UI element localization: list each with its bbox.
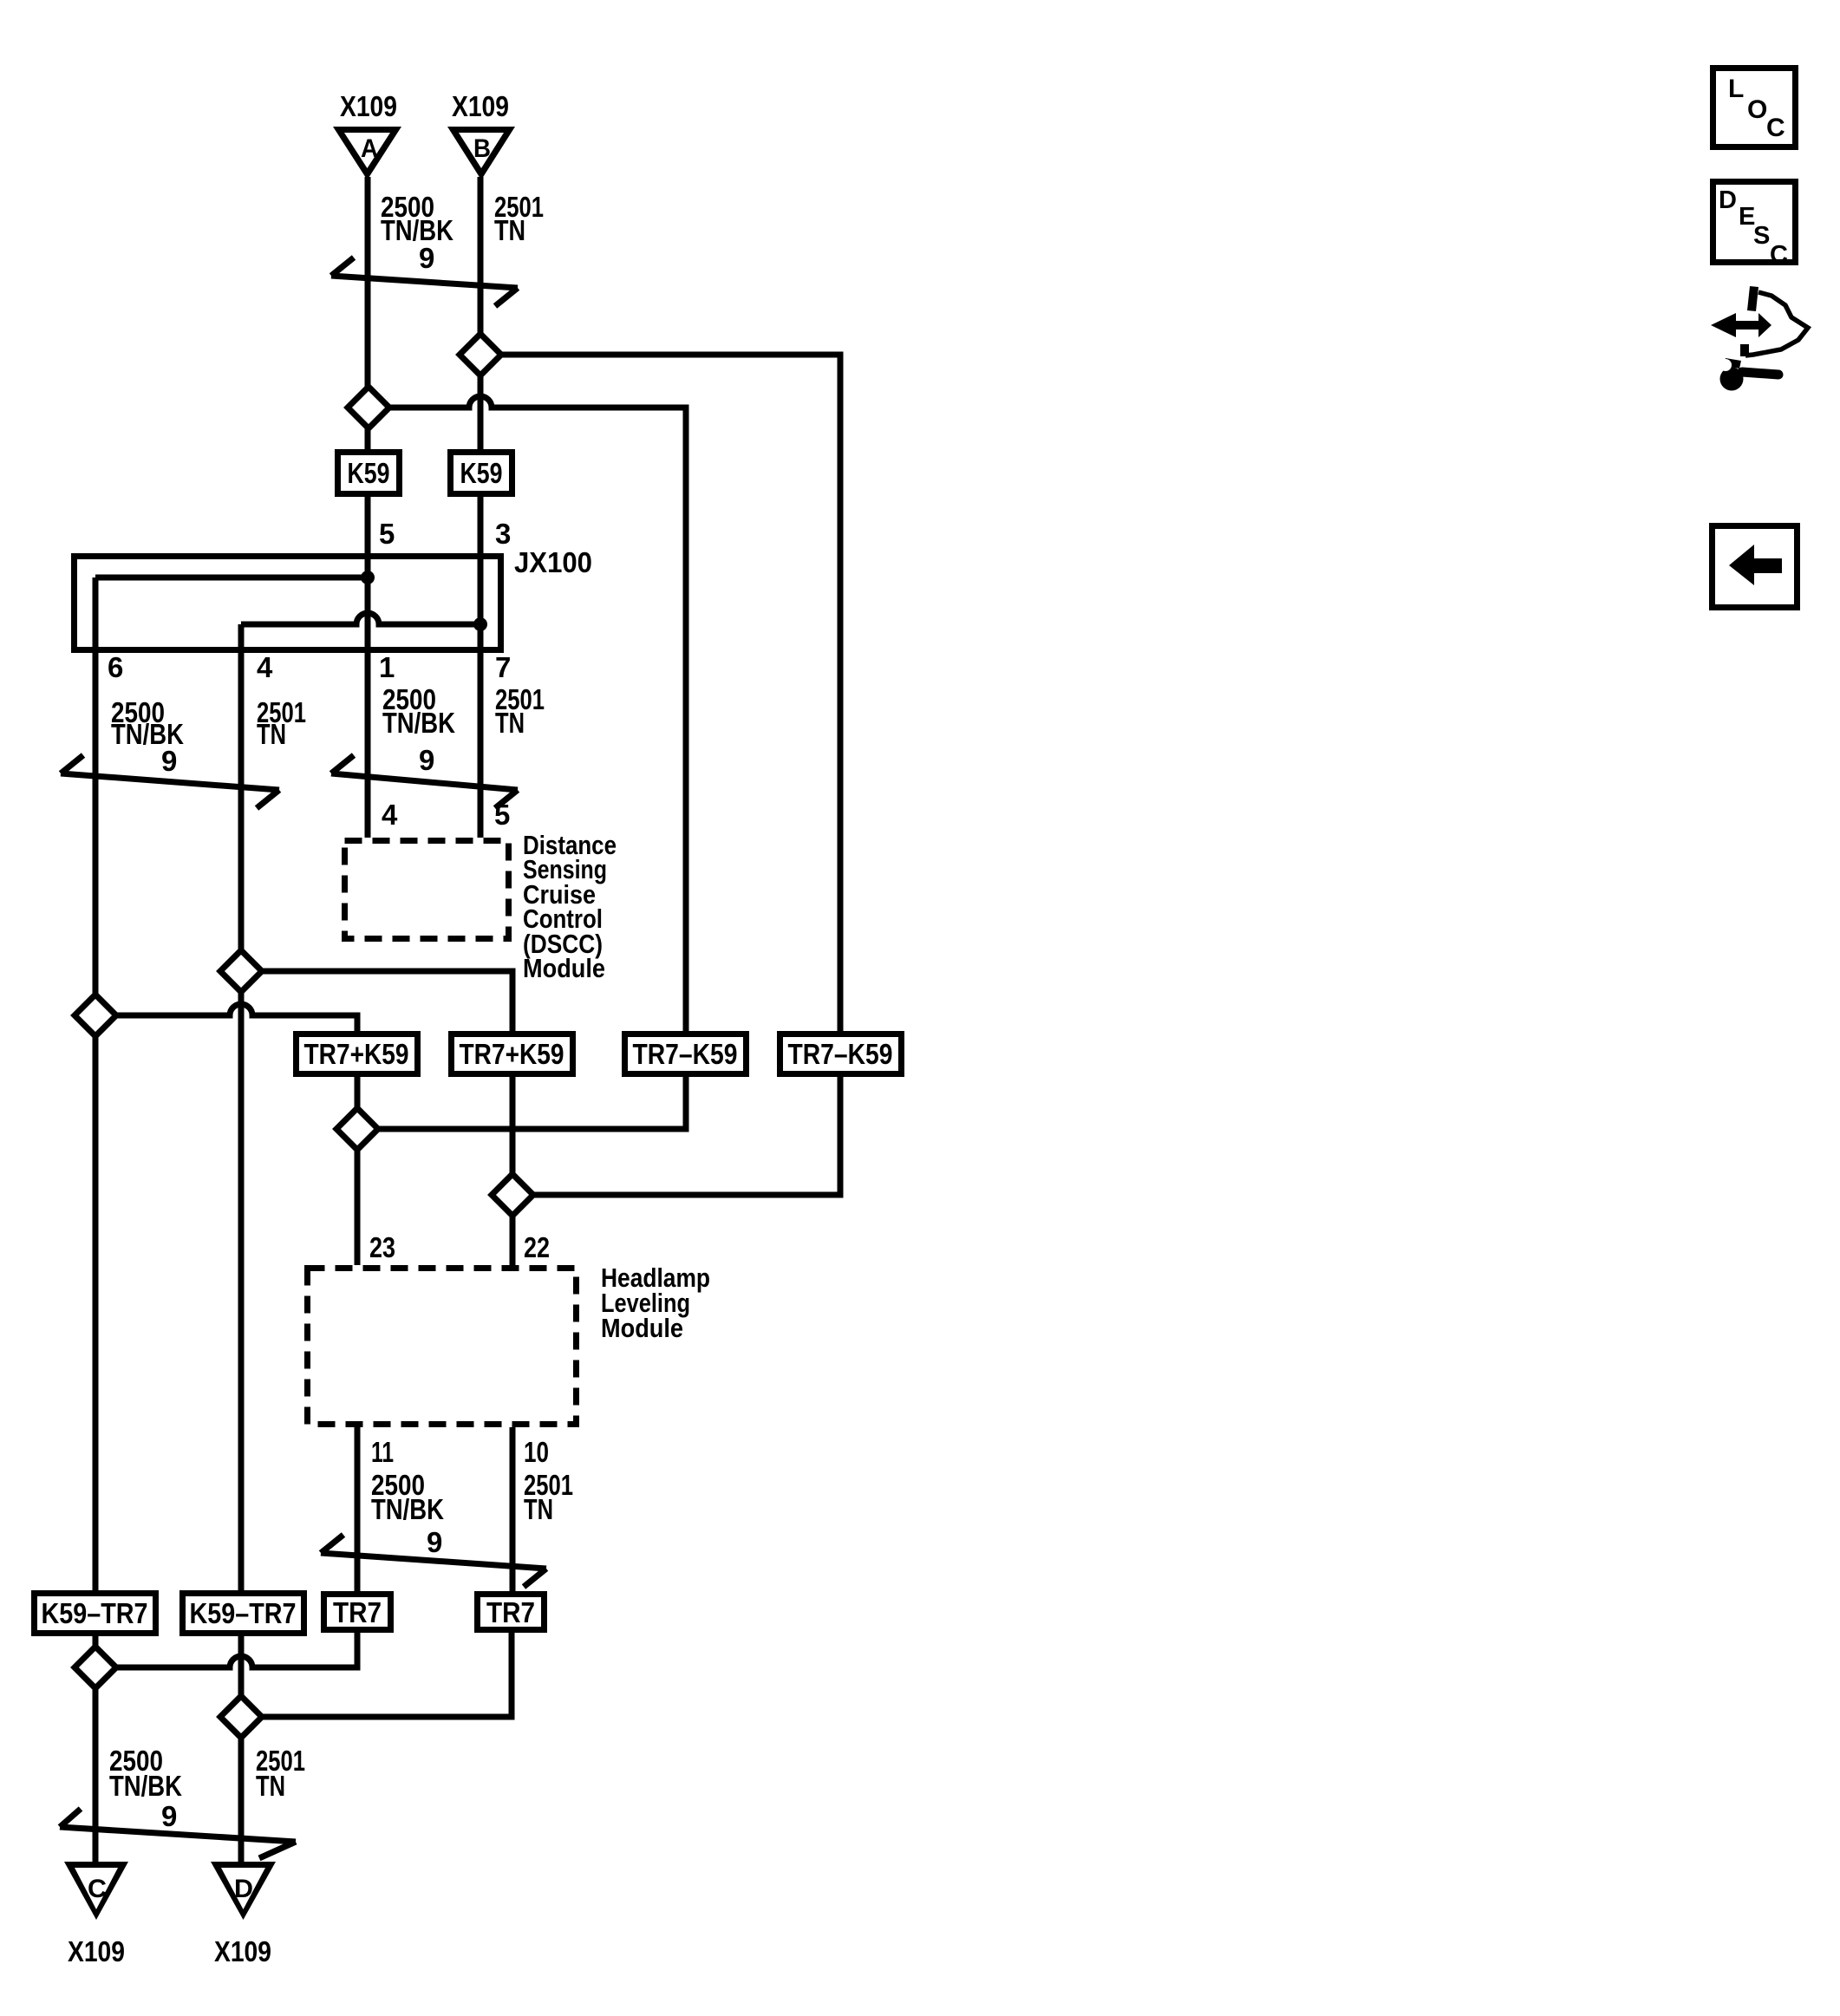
svg-text:TR7+K59: TR7+K59 — [460, 1038, 564, 1070]
wire 2500 TN/BK circuit (A) vertical x=424 — [365, 177, 371, 838]
svg-text:D: D — [234, 1875, 253, 1903]
svg-text:TR7+K59: TR7+K59 — [304, 1038, 409, 1070]
wire from splice S3 to TR7+K59 box2 top — [241, 971, 512, 1031]
svg-text:Module: Module — [523, 953, 605, 983]
svg-text:X109: X109 — [340, 90, 397, 122]
wire from splice S4 with hop over x=278 to TR7+K59 box1 top — [95, 1004, 357, 1031]
svg-text:JX100: JX100 — [514, 546, 592, 578]
wire headlamp module pin 10 to TR7 box4 — [510, 1427, 516, 1591]
icon box DESC — [1713, 182, 1796, 263]
label box K59-TR7 (right) — [183, 1594, 304, 1634]
svg-text:TN: TN — [256, 1770, 285, 1802]
connector triangle B (X109) — [447, 127, 515, 180]
splice S1 on wire A — [348, 387, 389, 428]
junction block JX100 outline — [75, 557, 501, 650]
label box TR7+K59 (1) — [297, 1034, 418, 1074]
svg-text:TN/BK: TN/BK — [381, 214, 453, 246]
wire TR7 box4 bottom left to splice S8 — [241, 1633, 512, 1717]
JX100 internal bus pin5-pin6 with junction dot — [95, 575, 368, 581]
connector triangle A (X109) — [333, 127, 401, 180]
svg-text:9: 9 — [427, 1526, 442, 1558]
wire JX100 pin4 2501 TN vertical x=278 down to splice S8 — [238, 624, 245, 1866]
svg-text:S: S — [1753, 222, 1770, 250]
label box TR7 (left) — [324, 1595, 391, 1630]
harness crossing slash 9 (mid, pins 1 and 7) — [331, 773, 518, 790]
svg-text:1: 1 — [379, 651, 395, 683]
svg-text:C: C — [88, 1875, 107, 1903]
svg-text:TN/BK: TN/BK — [382, 707, 455, 739]
label box TR7 (right) — [478, 1595, 545, 1630]
svg-text:4: 4 — [257, 651, 273, 683]
icon box back arrow — [1713, 526, 1798, 608]
svg-text:K59: K59 — [460, 457, 503, 489]
wire TR7+K59 box1 bottom to headlamp leveling module pin 23 — [355, 1077, 361, 1265]
svg-text:10: 10 — [524, 1436, 549, 1468]
svg-text:5: 5 — [494, 799, 510, 831]
svg-text:L: L — [1728, 75, 1744, 103]
harness crossing slash 9 (top, wires A and B) — [331, 276, 518, 288]
svg-text:9: 9 — [161, 1800, 177, 1832]
label box TR7-K59 (4) — [780, 1034, 902, 1074]
icon box LOC — [1713, 69, 1796, 147]
svg-text:9: 9 — [419, 744, 434, 776]
svg-text:9: 9 — [419, 242, 434, 274]
svg-text:K59–TR7: K59–TR7 — [190, 1597, 297, 1629]
label box K59-TR7 (left) — [35, 1594, 156, 1634]
wire TR7+K59 box2 bottom to headlamp leveling module pin 22 — [510, 1077, 516, 1265]
svg-text:4: 4 — [382, 799, 398, 831]
svg-text:5: 5 — [379, 518, 395, 550]
headlamp leveling module dashed box — [308, 1269, 577, 1425]
svg-text:X109: X109 — [452, 90, 509, 122]
splice S8 on x=278 wire (bottom) — [220, 1696, 262, 1738]
svg-text:TR7–K59: TR7–K59 — [788, 1038, 893, 1070]
splice S7 on x=110 wire (bottom) — [75, 1647, 116, 1688]
svg-text:TN: TN — [257, 718, 286, 750]
harness crossing slash 9 (bottom, wires C and D) — [60, 1827, 296, 1842]
svg-text:K59–TR7: K59–TR7 — [42, 1597, 148, 1629]
svg-text:TR7–K59: TR7–K59 — [633, 1038, 738, 1070]
wire TR7 box3 bottom left with hop over x=278 to splice S7 — [95, 1633, 357, 1667]
wire JX100 pin6 2500 TN/BK vertical x=110 down to splice S7 — [93, 577, 99, 1866]
connector triangle D (X109) — [211, 1862, 276, 1920]
svg-text:7: 7 — [495, 651, 511, 683]
wire headlamp module pin 11 to TR7 box3 — [355, 1427, 361, 1591]
svg-text:6: 6 — [108, 651, 123, 683]
svg-text:C: C — [1770, 241, 1788, 269]
svg-text:TR7: TR7 — [333, 1596, 382, 1628]
harness crossing slash 9 (left, pins 6 and 4) — [61, 773, 279, 790]
svg-text:TR7: TR7 — [486, 1596, 535, 1628]
connector triangle C (X109) — [64, 1862, 128, 1920]
wire from splice S1 with hop over wire B to TR7-K59 (inner) via x=791 down to y=1302 to splice S5 — [357, 396, 686, 1129]
svg-text:X109: X109 — [214, 1935, 271, 1967]
label box TR7+K59 (2) — [452, 1034, 573, 1074]
svg-text:22: 22 — [524, 1231, 550, 1263]
svg-text:11: 11 — [371, 1436, 394, 1468]
svg-text:X109: X109 — [68, 1935, 125, 1967]
svg-text:3: 3 — [495, 518, 511, 550]
label box TR7-K59 (3) — [625, 1034, 747, 1074]
svg-text:Module: Module — [601, 1313, 683, 1343]
splice S6 below TR7+K59 box2 — [492, 1174, 533, 1216]
svg-text:K59: K59 — [348, 457, 390, 489]
fuse label box K59 (right) — [451, 453, 512, 494]
harness crossing slash 9 (headlamp wires 11 and 10) — [321, 1553, 546, 1569]
wire 2501 TN circuit (B) vertical x=554 — [478, 177, 484, 838]
icon double arrow with part outline — [1711, 313, 1771, 337]
wire from splice S2 to TR7-K59 (right outer) via x=969 down to junction y=1378 to splice S6 — [480, 355, 840, 1195]
JX100 internal bus pin4-pin3/7 with hop over wire A and junction dot — [241, 613, 480, 624]
svg-text:TN: TN — [524, 1493, 553, 1525]
svg-text:O: O — [1747, 95, 1767, 124]
fuse label box K59 (left) — [338, 453, 400, 494]
svg-text:23: 23 — [369, 1231, 395, 1263]
svg-text:TN/BK: TN/BK — [109, 1770, 182, 1802]
splice S3 on x=278 wire — [220, 950, 262, 992]
splice S5 below TR7+K59 box1 — [336, 1108, 378, 1150]
svg-text:A: A — [361, 134, 378, 163]
DSCC module dashed box — [345, 841, 509, 939]
svg-text:TN: TN — [494, 214, 525, 246]
svg-text:9: 9 — [161, 745, 177, 777]
svg-text:TN/BK: TN/BK — [371, 1493, 444, 1525]
svg-text:TN: TN — [495, 707, 525, 739]
icon wrench — [1720, 368, 1744, 391]
splice S4 on x=110 wire — [75, 995, 116, 1036]
svg-text:B: B — [473, 134, 491, 163]
splice S2 on wire B — [460, 334, 501, 375]
svg-text:C: C — [1766, 114, 1785, 142]
svg-text:D: D — [1719, 186, 1737, 214]
